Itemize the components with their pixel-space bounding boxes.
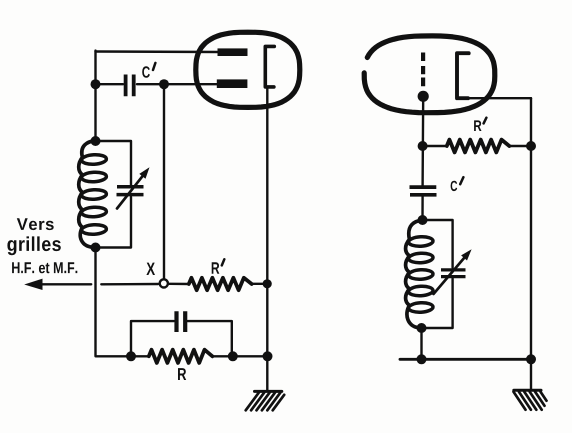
- label R' left prime: [222, 259, 225, 265]
- label grilles: [7, 236, 60, 255]
- wire: top grid to left rail: [96, 50, 220, 53]
- wire: tank branch bottom right: [422, 279, 453, 328]
- wire: tank branch bottom: [96, 197, 132, 248]
- resistor R zigzag: [149, 350, 213, 363]
- wire: bypass capacitor branch: [131, 321, 232, 356]
- wire: right rail vertical: [530, 98, 532, 359]
- output arrow line: [42, 283, 159, 286]
- wire: C' left lead: [96, 83, 124, 85]
- node junction at C' left: [91, 79, 101, 89]
- tube V2 anode plate bracket: [457, 53, 469, 98]
- capacitor C' (right) plates: [410, 187, 437, 195]
- node junction bottom rail right: [526, 354, 536, 364]
- resistor R' (left) zigzag: [189, 278, 252, 290]
- label C' (right): [451, 181, 458, 191]
- ground symbol left: [255, 390, 282, 393]
- label Vers: [17, 218, 54, 230]
- variable capacitor CV1 plates: [117, 187, 144, 195]
- tube V2 grid dashed electrode: [421, 53, 425, 87]
- variable capacitor CV2 plates: [441, 270, 466, 277]
- variable capacitor CV2 arrow: [434, 258, 465, 294]
- label C' right prime: [460, 177, 463, 184]
- label C' (left): [142, 66, 150, 78]
- label H.F. et M.F.: [12, 262, 77, 273]
- node junction anode/R': [263, 279, 272, 288]
- node junction coil bottom: [91, 243, 101, 253]
- wire: tank branch top: [96, 141, 132, 186]
- wire: grid node down to X: [163, 84, 165, 278]
- label R: [178, 368, 186, 380]
- label R' (right): [474, 120, 481, 131]
- capacitor C' (left) plates: [126, 75, 134, 97]
- wire: C' to coil top: [421, 196, 424, 220]
- wire: to ground right: [530, 359, 532, 390]
- node junction coil top: [91, 136, 101, 146]
- output arrowhead: [24, 279, 42, 290]
- capacitor across R plates: [177, 311, 186, 332]
- wire: coil bottom to bottom rail: [420, 328, 422, 359]
- node junction ground rail bottom: [263, 351, 273, 361]
- wire: R' to anode rail: [252, 283, 268, 285]
- tube V1 electrode bar 1: [218, 48, 248, 56]
- wire: R' left lead: [423, 145, 447, 147]
- node junction coil bottom right: [417, 323, 427, 333]
- node junction coil top right: [418, 215, 428, 225]
- wire: C' right lead to grid 2: [137, 83, 219, 85]
- label R' (left): [212, 262, 220, 273]
- wire: R right lead: [212, 355, 267, 357]
- node junction bottom rail left: [417, 354, 427, 364]
- ground symbol right: [514, 389, 541, 392]
- node X open circle: [160, 279, 168, 287]
- wire: anode down to ground: [266, 88, 268, 391]
- inductor L2 coil: [406, 220, 423, 328]
- node junction R right: [228, 351, 238, 361]
- inductor L1 coil: [79, 141, 96, 248]
- tube V1 electrode bar 2: [217, 79, 248, 88]
- tube V2 envelope: [364, 36, 495, 113]
- wire: coil bottom down to R network: [96, 248, 129, 357]
- wire: R left lead: [131, 355, 149, 357]
- variable capacitor CV1 arrow: [117, 176, 142, 208]
- wire: grid down to C': [421, 96, 424, 186]
- wire: R' right lead: [509, 145, 531, 147]
- label X: [146, 263, 155, 275]
- node junction grid/R': [418, 141, 428, 151]
- wire: left rail vertical: [94, 51, 96, 141]
- node junction R' right: [526, 141, 536, 151]
- label R' right prime: [484, 118, 487, 124]
- tube V2 grid node dot: [418, 91, 429, 102]
- wire: bottom rail: [400, 358, 531, 361]
- wire: anode to right rail: [466, 97, 531, 99]
- tube V1 envelope: [196, 32, 300, 107]
- wire: tank branch top right: [423, 220, 453, 268]
- resistor R' (right) zigzag: [447, 140, 510, 153]
- label C' left prime: [153, 63, 155, 70]
- node junction at C' right: [159, 79, 169, 89]
- node junction R left: [126, 351, 136, 361]
- tube V1 anode plate bracket: [265, 46, 274, 87]
- wire: X to R': [169, 283, 189, 286]
